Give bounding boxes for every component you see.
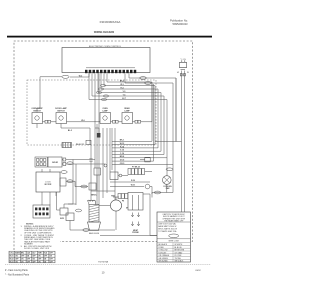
node connector CN6 <box>135 120 141 123</box>
svg-text:MOTOR: MOTOR <box>45 184 52 186</box>
svg-text:Y-16: Y-16 <box>120 153 124 155</box>
wire element top leads <box>96 124 98 205</box>
node timing chart table <box>9 251 55 263</box>
svg-text:OFF: OFF <box>15 259 18 261</box>
svg-text:W-6: W-6 <box>81 120 84 122</box>
svg-text:Publication No.: Publication No. <box>170 18 188 22</box>
svg-text:Y YELLOW: Y YELLOW <box>159 250 168 252</box>
wire lamp link 1 <box>43 121 57 123</box>
wire lamp1 bottom stub <box>36 124 38 129</box>
node terminal row TB2 <box>118 194 128 203</box>
svg-text:OFF: OFF <box>21 256 24 258</box>
svg-text:SWITCH: SWITCH <box>57 110 65 112</box>
node oval label BR-41 <box>154 191 160 194</box>
node relay K1 <box>110 172 122 180</box>
wire relay row 2 <box>110 181 150 183</box>
wire mid drop x95 lower <box>96 175 98 191</box>
wire control left lead <box>70 73 89 77</box>
svg-text:DOOR CLOSED, UNIT OFF: DOOR CLOSED, UNIT OFF <box>24 248 50 250</box>
svg-text:W WHITE: W WHITE <box>175 244 184 246</box>
svg-text:OFF: OFF <box>50 262 53 264</box>
node sensor box <box>89 183 96 190</box>
svg-text:GY-9: GY-9 <box>120 160 124 162</box>
svg-text:BK BLACK: BK BLACK <box>159 243 168 246</box>
svg-text:OR ORANGE: OR ORANGE <box>159 254 171 257</box>
node DIP terminal strip TB1 <box>128 167 145 175</box>
wire interlock leads <box>57 192 77 210</box>
wire control right lead N <box>125 73 173 192</box>
svg-text:OFF: OFF <box>32 256 35 258</box>
svg-text:PK PINK: PK PINK <box>175 255 183 257</box>
svg-text:Y-6: Y-6 <box>123 94 126 96</box>
svg-text:RLY2: RLY2 <box>10 259 14 261</box>
svg-text:BRL: BRL <box>21 253 24 255</box>
node oval label W-40 <box>83 229 89 232</box>
wire footer rule <box>5 263 211 265</box>
node thermostat TH1 <box>145 184 150 189</box>
svg-text:BROIL: BROIL <box>91 194 97 196</box>
node relay K2 box <box>145 157 150 162</box>
node console dashed border <box>27 80 156 145</box>
node wire labels on harness <box>120 140 125 165</box>
node wiring code table <box>157 212 191 263</box>
node lock side connector <box>60 178 66 186</box>
svg-text:OF THE UNIT COMPONENTS: OF THE UNIT COMPONENTS <box>24 232 52 234</box>
wire L1 feed <box>181 71 183 213</box>
wire probe to right <box>143 194 157 236</box>
wire fan bottom <box>152 184 173 197</box>
svg-text:BL BLUE: BL BLUE <box>175 247 183 249</box>
svg-text:WIRE CODE: WIRE CODE <box>169 241 180 243</box>
wire lamp drop 1 <box>61 124 90 146</box>
motor M1 convection motor <box>110 195 128 212</box>
inductor coil latch solenoid <box>88 194 98 204</box>
svg-text:NUMBER: NUMBER <box>24 243 33 245</box>
node oval label R-23 <box>81 185 87 188</box>
node pin numbers smudge <box>86 67 135 68</box>
node element base <box>88 222 101 231</box>
svg-text:WIRING DIAGRAM: WIRING DIAGRAM <box>94 31 114 34</box>
svg-text:OR-5: OR-5 <box>120 163 125 165</box>
svg-text:OFF: OFF <box>32 262 35 264</box>
wire motor bottom <box>115 211 117 230</box>
node switch SW3 box <box>94 168 101 175</box>
svg-text:BK-2: BK-2 <box>120 80 124 82</box>
svg-text:W-2: W-2 <box>79 75 82 77</box>
svg-text:OFF: OFF <box>50 259 53 261</box>
wire lamp feed right <box>133 84 153 122</box>
svg-text:* L1 N: * L1 N <box>180 59 186 61</box>
lamp L4 rear lamp <box>122 107 133 123</box>
svg-text:F3F303MXASA: F3F303MXASA <box>100 20 121 24</box>
svg-text:OFF: OFF <box>38 259 41 261</box>
svg-text:* - Not Illustrated Parts: * - Not Illustrated Parts <box>5 274 30 277</box>
node junction dot <box>104 164 107 167</box>
svg-text:TOT AMPS 60HZ 28 A: TOT AMPS 60HZ 28 A <box>158 230 177 233</box>
node interlock switch cluster <box>60 208 74 221</box>
wire mid drop x99 <box>98 73 100 204</box>
node door lock assembly DL1 <box>36 172 60 192</box>
node connector CN3 oval <box>145 82 152 85</box>
wire bottom link <box>100 235 157 237</box>
svg-text:W-31: W-31 <box>131 185 135 187</box>
svg-text:RLY1: RLY1 <box>10 256 14 258</box>
svg-text:5995290433: 5995290433 <box>173 22 188 26</box>
svg-text:GY GRAY: GY GRAY <box>175 251 184 254</box>
node wire labels on upper harness <box>120 80 126 100</box>
heating element E1 broil element <box>89 205 99 223</box>
svg-text:V-5: V-5 <box>123 91 126 93</box>
wire mid drop x110 <box>109 128 111 172</box>
wire thermostat drop <box>150 187 152 195</box>
svg-text:L1: L1 <box>177 72 179 74</box>
capacitor C1 marks <box>90 159 93 162</box>
node fuse block F1 <box>95 128 99 133</box>
svg-text:03/02: 03/02 <box>195 270 201 272</box>
svg-text:V VIOLET: V VIOLET <box>159 252 168 254</box>
svg-text:OFF: OFF <box>44 256 47 258</box>
svg-text:TN TAN: TN TAN <box>175 257 182 260</box>
svg-text:W-3: W-3 <box>120 84 123 86</box>
wire control right lead L1 <box>129 73 176 141</box>
svg-text:LAMP: LAMP <box>124 109 130 112</box>
node selector switch bank SW1 <box>35 157 48 167</box>
lamp L3 oven lamp <box>100 108 111 123</box>
svg-text:R-30: R-30 <box>131 180 135 182</box>
wire mid drop x95 <box>94 73 96 168</box>
wire mid drop x103 <box>102 128 104 198</box>
node oval label R-22 <box>67 180 73 183</box>
svg-text:PROBE: PROBE <box>132 232 139 234</box>
lamp L1 oven light <box>31 107 43 123</box>
svg-text:# - Fast moving Parts: # - Fast moving Parts <box>5 269 29 272</box>
node cabinet dashed border <box>14 41 193 250</box>
node plug pin stubs <box>180 74 185 76</box>
node oval label GY-24 <box>61 171 67 174</box>
wire right drop <box>175 78 177 142</box>
svg-text:BL-3: BL-3 <box>68 130 72 132</box>
wire lamp link 3 <box>111 121 123 123</box>
node oval label Y-7 <box>67 162 73 165</box>
svg-text:BR-8: BR-8 <box>120 156 124 158</box>
svg-text:V-15: V-15 <box>120 150 124 152</box>
svg-text:BR BROWN: BR BROWN <box>175 250 185 252</box>
svg-text:SWITCH: SWITCH <box>33 110 41 112</box>
node P1 connector pin row <box>85 70 136 73</box>
node oval label BK-44 <box>76 209 82 212</box>
wire lamp link 2 <box>67 121 101 123</box>
node notes block <box>21 223 56 250</box>
svg-text:P8: P8 <box>122 201 124 203</box>
wire fan top <box>166 158 168 176</box>
node connector CN8 <box>63 158 66 166</box>
lamp L2 door switch <box>55 107 67 123</box>
node door plug connector P2 <box>33 205 50 218</box>
wire lock to center <box>66 181 88 186</box>
wire bottom run <box>70 221 115 231</box>
svg-text:LAMP: LAMP <box>102 109 108 112</box>
svg-text:ELECTRONIC OVEN CONTROL: ELECTRONIC OVEN CONTROL <box>89 46 122 48</box>
wire to oven light <box>37 77 62 113</box>
wire lock leads <box>42 169 56 205</box>
wire switch to bus upper <box>62 160 95 205</box>
node connector CN4 <box>45 120 51 123</box>
wire relay row 1 <box>118 172 152 176</box>
svg-text:RLY3: RLY3 <box>10 262 14 264</box>
wire mid drop x107 <box>106 128 108 193</box>
wire harness right elbows <box>89 73 167 158</box>
resistor R1 oval label <box>62 75 69 78</box>
wire relay K2 stub <box>140 159 145 161</box>
node harness connector ovals <box>96 84 108 100</box>
node probe receptacle box <box>128 193 143 211</box>
node footer legend <box>5 269 30 277</box>
wire N feed <box>184 71 186 213</box>
svg-text:SW2: SW2 <box>60 218 64 220</box>
node connector on console line <box>86 140 91 144</box>
svg-text:OFF: OFF <box>27 259 30 261</box>
wire mid horizontal y191 <box>91 190 115 192</box>
wire motor left stub <box>99 205 110 207</box>
node switch body SW1b <box>48 157 62 167</box>
wire header rule <box>7 36 212 38</box>
svg-text:SW-8R: SW-8R <box>52 162 58 164</box>
wire relay row 3 <box>110 186 144 188</box>
svg-text:GY-7: GY-7 <box>122 98 126 100</box>
svg-text:OFF: OFF <box>50 253 53 255</box>
svg-text:WB W-BLK: WB W-BLK <box>175 261 185 263</box>
op-amp U1 electronic oven control board <box>62 46 150 73</box>
wire N branch <box>155 141 182 143</box>
wire switch to bus lower <box>62 164 105 205</box>
svg-text:BK-1: BK-1 <box>120 140 124 142</box>
svg-text:7927078A: 7927078A <box>98 261 109 264</box>
node publication number label <box>170 18 188 26</box>
wire mid drop x112 <box>111 128 113 170</box>
wire relay rows <box>112 84 173 164</box>
svg-text:OFF: OFF <box>27 262 30 264</box>
svg-text:CYCL: CYCL <box>10 253 14 255</box>
node connector CN5 <box>113 120 119 123</box>
node connector CN2 oval <box>140 77 147 80</box>
node probe pins arrows <box>131 213 140 226</box>
node console connector CN7 <box>62 143 72 148</box>
node power plug J1 <box>180 60 187 69</box>
svg-text:R-4: R-4 <box>121 86 124 89</box>
fan M2 cooling fan <box>163 168 173 190</box>
wire mid drop x91 <box>89 145 91 205</box>
svg-text:W-12: W-12 <box>120 143 124 145</box>
wire mid drop x115 <box>114 128 116 200</box>
svg-text:P4 GY-11: P4 GY-11 <box>76 143 84 146</box>
svg-text:R RED: R RED <box>159 247 165 249</box>
svg-text:BAKE ELEM: BAKE ELEM <box>89 232 100 235</box>
svg-text:WR W-RED: WR W-RED <box>159 261 169 263</box>
